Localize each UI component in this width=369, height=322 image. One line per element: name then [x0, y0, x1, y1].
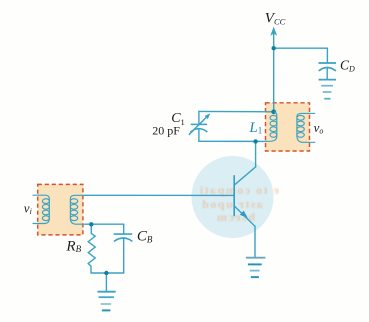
- svg-text:20 pF: 20 pF: [152, 124, 180, 138]
- svg-text:astr upod: astr upod: [201, 197, 263, 211]
- svg-text:hsecm: hsecm: [216, 210, 256, 224]
